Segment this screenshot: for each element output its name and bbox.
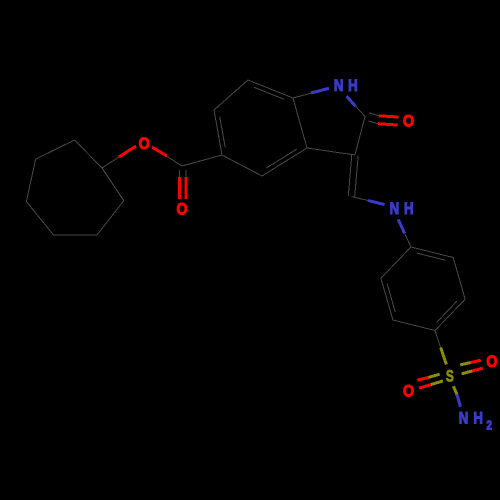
bond Cc-C5 <box>182 155 222 166</box>
svg-text:O: O <box>176 200 187 218</box>
svg-text:N: N <box>334 77 344 96</box>
svg-text:H: H <box>404 200 414 219</box>
double bond S=O4 (right) <box>460 363 472 374</box>
benzo inner double bond C7a=C7 <box>254 87 285 99</box>
svg-text:O: O <box>403 382 414 400</box>
bond S-N3 <box>453 386 457 394</box>
double bond Cc=O2 <box>179 170 186 199</box>
bond C4-S <box>435 331 441 348</box>
svg-text:S: S <box>446 368 454 387</box>
phenyl inner double bond C1=C2' <box>417 253 446 260</box>
exocyclic double bond C3=CH <box>348 155 358 197</box>
phenyl inner double bond C5'=C6' <box>387 284 395 312</box>
bond N1-C2 <box>347 96 365 116</box>
benzo inner double bond C6=C5 <box>220 117 226 148</box>
svg-text:2: 2 <box>486 418 492 432</box>
bond CH-N2 <box>352 197 385 205</box>
double bond S=O5 (left) <box>429 374 444 384</box>
cycloheptyl ring <box>26 140 123 235</box>
svg-text:N: N <box>390 200 400 219</box>
phenyl ring (sulfanilamide) <box>381 247 465 331</box>
svg-text:N: N <box>459 409 469 428</box>
double bond C2=O3 <box>368 113 379 124</box>
indoline benzo ring <box>214 80 307 176</box>
benzo inner double bond C4=C3a <box>266 149 297 168</box>
svg-text:O: O <box>403 112 414 130</box>
svg-text:O: O <box>139 135 150 153</box>
svg-text:H: H <box>348 77 358 96</box>
bond O1-cycloheptyl <box>102 146 136 168</box>
phenyl inner double bond C3'=C4 <box>437 301 457 322</box>
bond C2-C3 <box>355 117 365 156</box>
bond C3-C3a <box>307 148 355 155</box>
svg-text:O: O <box>486 353 497 371</box>
bond C7a-N1 <box>293 88 329 98</box>
svg-text:H: H <box>473 409 483 428</box>
bond O1-Cc <box>152 147 182 166</box>
bond N2-C1 <box>398 220 411 248</box>
